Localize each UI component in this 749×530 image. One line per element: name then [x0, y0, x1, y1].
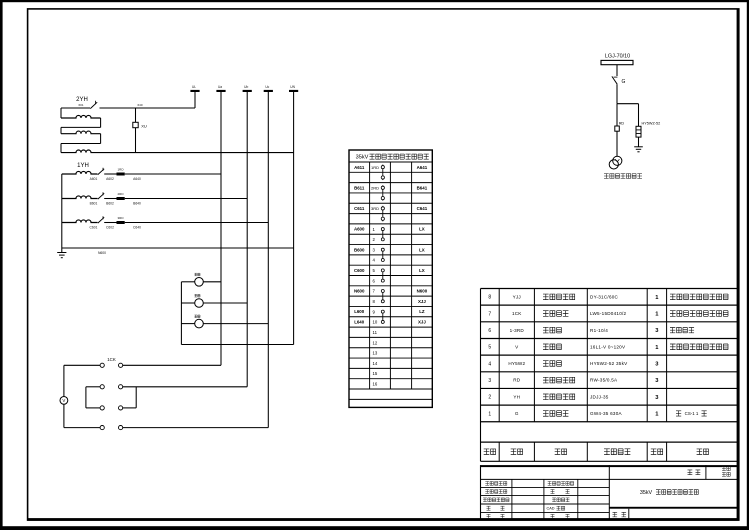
svg-text:2RD: 2RD	[117, 192, 124, 196]
svg-text:L640: L640	[354, 320, 365, 325]
svg-text:A600: A600	[354, 227, 365, 232]
svg-text:GW4-35 630A: GW4-35 630A	[590, 411, 623, 416]
svg-text:35kV: 35kV	[356, 155, 369, 161]
svg-text:B640: B640	[133, 202, 141, 206]
svg-text:6: 6	[488, 328, 491, 334]
svg-text:N600: N600	[98, 251, 106, 255]
svg-text:1RD: 1RD	[371, 165, 379, 170]
svg-text:16: 16	[373, 382, 378, 387]
svg-text:XJJ: XJJ	[418, 320, 426, 325]
svg-text:Ub: Ub	[244, 85, 248, 89]
svg-text:C602: C602	[106, 226, 114, 230]
svg-text:N600: N600	[354, 289, 365, 294]
svg-text:4: 4	[488, 361, 491, 367]
svg-text:13: 13	[373, 351, 378, 356]
svg-text:C611: C611	[354, 206, 365, 211]
svg-text:HY5WZ-52: HY5WZ-52	[642, 121, 661, 125]
svg-text:RW-35/0.5A: RW-35/0.5A	[590, 378, 618, 383]
svg-text:B601: B601	[90, 202, 98, 206]
svg-text:JDJJ-35: JDJJ-35	[590, 394, 609, 399]
svg-text:10: 10	[373, 320, 378, 325]
svg-text:1CK: 1CK	[512, 311, 522, 316]
svg-text:15: 15	[373, 371, 378, 376]
svg-text:LW5-15D0410/2: LW5-15D0410/2	[590, 311, 627, 316]
svg-text:11: 11	[373, 330, 378, 335]
svg-text:B602: B602	[106, 202, 114, 206]
svg-text:N600: N600	[417, 289, 428, 294]
svg-text:B641: B641	[417, 185, 428, 190]
svg-text:8: 8	[488, 295, 491, 301]
svg-text:CS-1 1: CS-1 1	[685, 411, 699, 416]
svg-text:B611: B611	[354, 185, 365, 190]
svg-text:3RD: 3RD	[117, 216, 124, 220]
svg-text:YH: YH	[513, 394, 520, 399]
svg-text:C600: C600	[354, 268, 365, 273]
svg-text:YJJ: YJJ	[513, 294, 521, 299]
svg-text:LX: LX	[419, 247, 425, 252]
svg-text:1RD: 1RD	[117, 167, 124, 171]
svg-text:3RD: 3RD	[371, 206, 379, 211]
svg-text:640: 640	[137, 103, 142, 107]
svg-text:HY5W2-52 35kV: HY5W2-52 35kV	[590, 361, 628, 366]
svg-text:3: 3	[488, 378, 491, 384]
svg-text:LX: LX	[419, 227, 425, 232]
svg-text:Ua: Ua	[218, 85, 222, 89]
svg-text:G: G	[622, 79, 626, 85]
svg-text:DY-31C/60C: DY-31C/60C	[590, 294, 619, 299]
svg-text:G: G	[515, 411, 519, 416]
svg-text:1CK: 1CK	[107, 357, 116, 362]
svg-text:C601: C601	[90, 226, 98, 230]
svg-text:V: V	[62, 398, 65, 403]
svg-text:LGJ-70/10: LGJ-70/10	[605, 54, 630, 60]
svg-text:A611: A611	[354, 165, 365, 170]
svg-text:2: 2	[488, 395, 491, 401]
svg-text:1-3RD: 1-3RD	[510, 328, 525, 333]
svg-text:1: 1	[488, 411, 491, 417]
svg-text:A641: A641	[417, 165, 428, 170]
svg-text:C641: C641	[417, 206, 428, 211]
svg-text:LX: LX	[419, 268, 425, 273]
svg-text:5: 5	[488, 345, 491, 351]
svg-text:2RD: 2RD	[371, 185, 379, 190]
svg-text:CAD: CAD	[546, 507, 554, 511]
svg-text:C640: C640	[133, 226, 141, 230]
svg-text:R1-10/4: R1-10/4	[590, 328, 608, 333]
svg-text:UN: UN	[290, 85, 295, 89]
svg-text:601: 601	[78, 103, 83, 107]
svg-text:B600: B600	[354, 247, 365, 252]
svg-text:XJJ: XJJ	[418, 299, 426, 304]
svg-text:16L1-V 0~120V: 16L1-V 0~120V	[590, 344, 626, 349]
svg-text:14: 14	[373, 361, 378, 366]
svg-text:UL: UL	[192, 85, 196, 89]
svg-text:L600: L600	[354, 309, 365, 314]
svg-text:HY5W2: HY5W2	[508, 361, 525, 366]
svg-text:LZ: LZ	[419, 309, 425, 314]
svg-text:12: 12	[373, 340, 378, 345]
svg-text:7: 7	[488, 311, 491, 317]
svg-text:RD: RD	[619, 121, 625, 125]
svg-text:XU: XU	[141, 123, 147, 128]
svg-text:A601: A601	[90, 177, 98, 181]
svg-text:RD: RD	[513, 378, 521, 383]
svg-text:Uc: Uc	[265, 85, 269, 89]
svg-text:35kV: 35kV	[640, 490, 653, 496]
svg-text:1YH: 1YH	[77, 163, 89, 169]
svg-text:A602: A602	[106, 177, 114, 181]
svg-text:A640: A640	[133, 177, 141, 181]
